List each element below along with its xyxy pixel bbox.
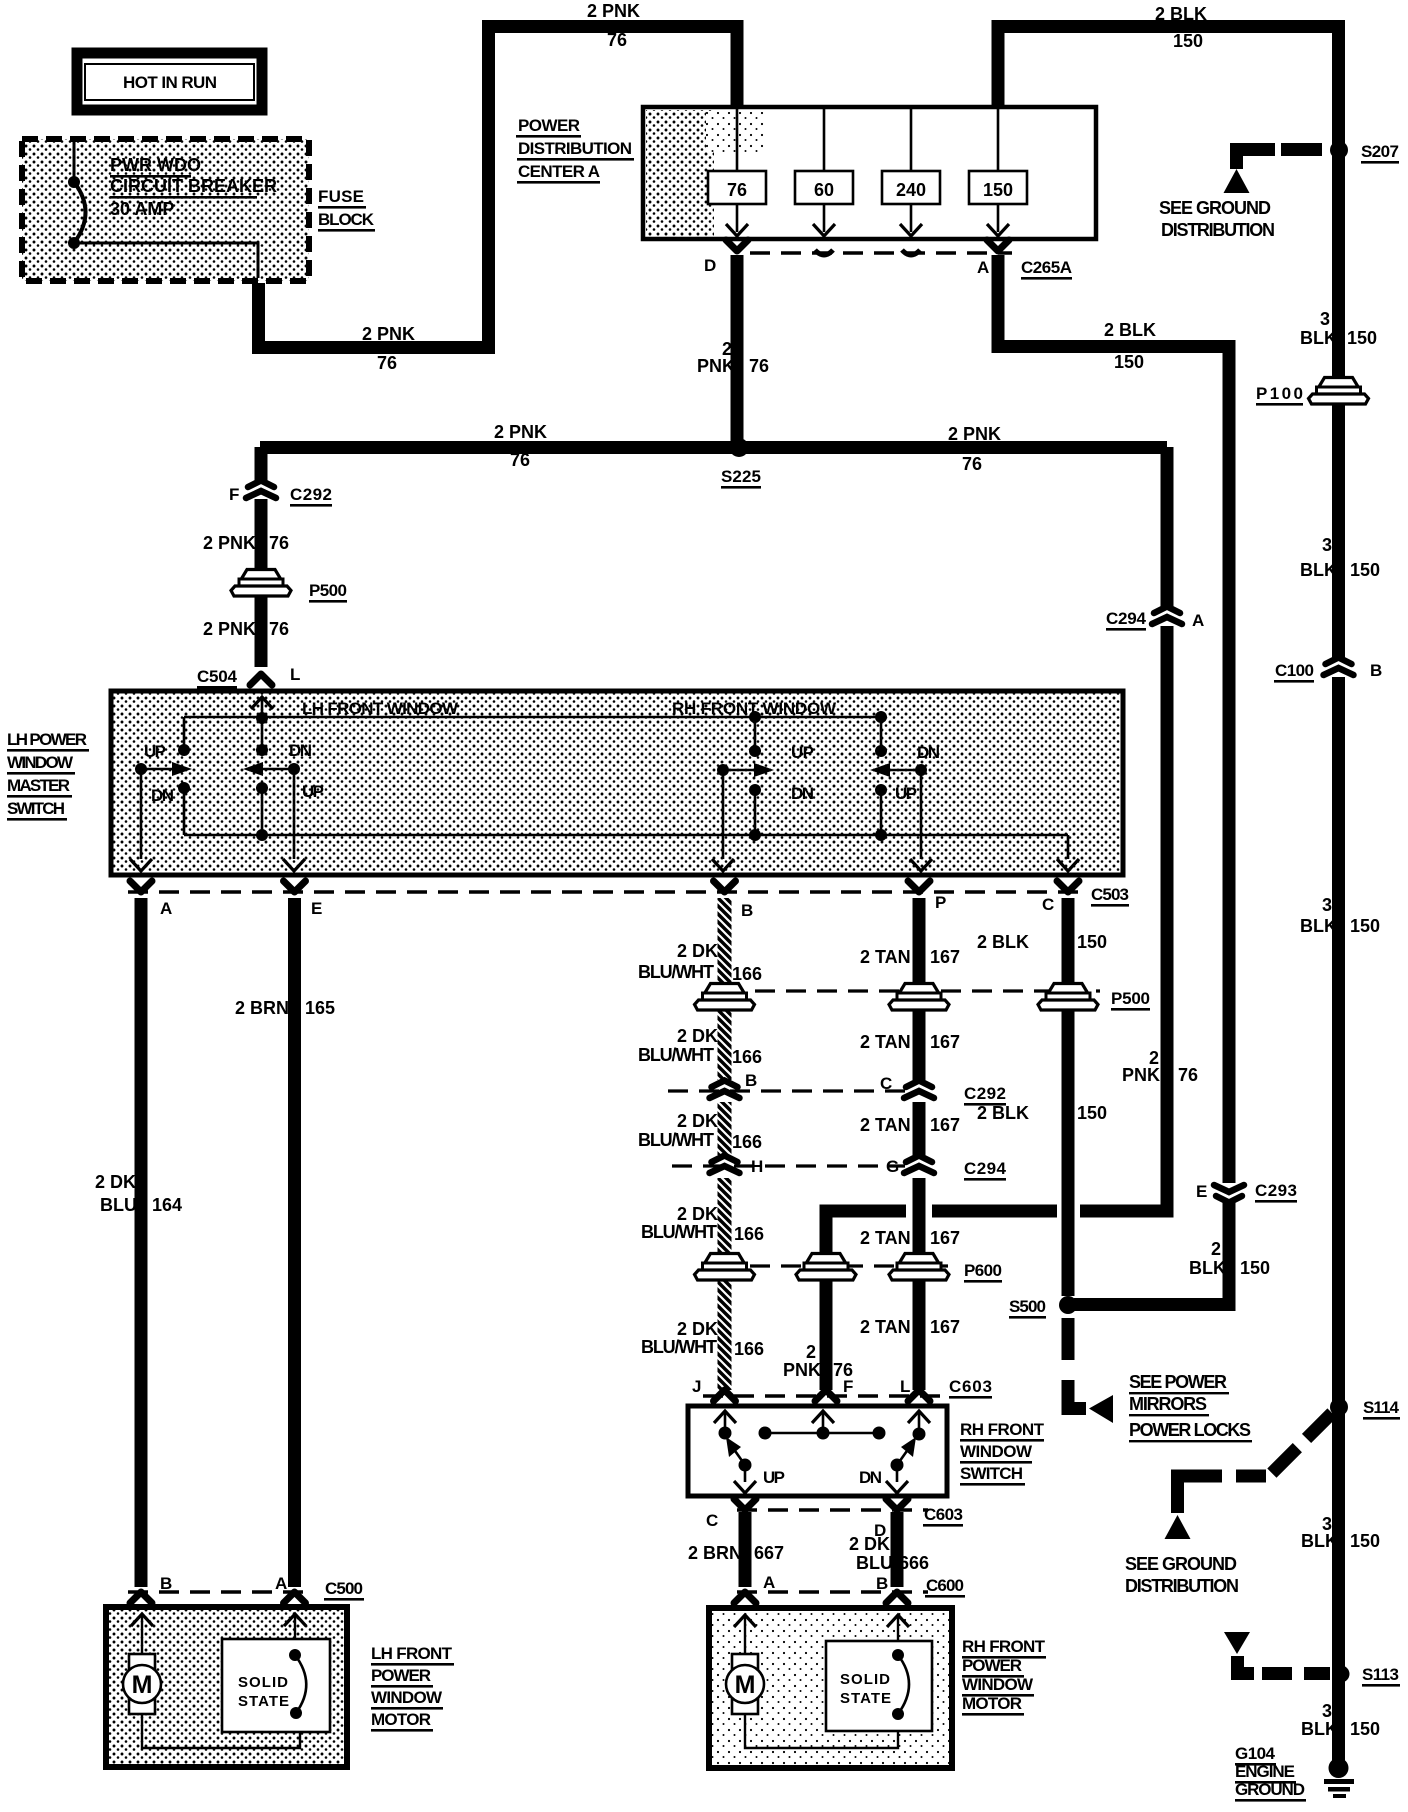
svg-text:667: 667 [754, 1543, 784, 1563]
motor pin B arrow [131, 1614, 153, 1626]
connector C603 pin J [714, 1390, 736, 1401]
connector C294 pin A [1152, 607, 1182, 625]
svg-text:150: 150 [1077, 1103, 1107, 1123]
svg-text:150: 150 [1114, 352, 1144, 372]
wire 2 BRN 667 [739, 1512, 752, 1587]
grommet P500 row dashed [724, 989, 1100, 992]
svg-text:C: C [1042, 895, 1054, 914]
grommet P500 on P [889, 984, 949, 1011]
connector C603 pin D [886, 1499, 908, 1510]
wire 2 BLK 150 pin C down [1062, 898, 1075, 1296]
svg-text:WINDOW: WINDOW [960, 1442, 1033, 1461]
svg-text:C265A: C265A [1021, 258, 1072, 277]
svg-text:76: 76 [749, 356, 769, 376]
svg-text:L: L [900, 1377, 910, 1396]
svg-text:HOT IN RUN: HOT IN RUN [123, 73, 217, 92]
svg-text:2 DK: 2 DK [95, 1172, 136, 1192]
wire 2 DK BLU 666 [891, 1512, 904, 1587]
grommet P500 (left) [231, 570, 291, 597]
wire to LH DN contact [261, 718, 264, 750]
svg-text:DISTRIBUTION: DISTRIBUTION [1161, 220, 1275, 240]
solid state contacts and arc [892, 1649, 904, 1661]
wire top bus to LH UP contact [183, 717, 186, 750]
connector C503 dashed line [128, 890, 1088, 894]
svg-text:BLU/WHT: BLU/WHT [641, 1337, 717, 1357]
RH lower contact DN [749, 784, 761, 796]
svg-text:2 DK: 2 DK [677, 1204, 718, 1224]
svg-text:SEE POWER: SEE POWER [1129, 1372, 1227, 1392]
connector C503 pin C [1057, 881, 1079, 892]
svg-text:76: 76 [510, 450, 530, 470]
svg-text:BLU: BLU [100, 1195, 137, 1215]
wire dashed below S500 [1062, 1318, 1075, 1366]
svg-text:BLU: BLU [856, 1553, 893, 1573]
wire 2 BLK 150 C293 to S500 [1074, 1201, 1229, 1305]
LH lower contact DN [178, 782, 190, 794]
connector C265A unused cavity 1 [815, 250, 833, 255]
svg-text:2 DK: 2 DK [677, 1026, 718, 1046]
switch feed arrow from C504 [251, 697, 273, 709]
grommet P100 [1309, 378, 1369, 405]
svg-text:C: C [880, 1074, 892, 1093]
svg-text:C504: C504 [197, 667, 238, 686]
svg-text:STATE: STATE [238, 1693, 289, 1710]
svg-text:150: 150 [1350, 1531, 1380, 1551]
wire 2 PNK 76 right branch down to C294 [1161, 447, 1174, 608]
connector C292 pin C [904, 1081, 934, 1099]
svg-text:M: M [132, 1671, 153, 1699]
svg-text:WINDOW: WINDOW [7, 753, 74, 772]
connector C603 row dashed [703, 1394, 944, 1398]
svg-text:150: 150 [1240, 1258, 1270, 1278]
connector C603 lower dashed [737, 1508, 928, 1512]
svg-text:LH FRONT: LH FRONT [371, 1644, 453, 1663]
connector C294 pin G [904, 1156, 934, 1174]
svg-text:150: 150 [1350, 560, 1380, 580]
svg-text:2 BRN: 2 BRN [688, 1543, 742, 1563]
svg-text:FUSE: FUSE [318, 187, 364, 206]
connector C265A unused cavity 2 [902, 250, 920, 255]
switch pin L entry arrow [908, 1411, 930, 1423]
svg-text:C600: C600 [926, 1576, 964, 1595]
svg-text:30 AMP: 30 AMP [110, 199, 174, 219]
connector C503 pin E [284, 881, 306, 892]
svg-text:A: A [763, 1573, 775, 1592]
svg-text:167: 167 [930, 1228, 960, 1248]
grommet P500 on B [695, 984, 755, 1011]
svg-text:RH FRONT: RH FRONT [960, 1420, 1045, 1439]
svg-text:2 PNK: 2 PNK [362, 324, 415, 344]
svg-text:166: 166 [732, 1047, 762, 1067]
splice S207 [1330, 141, 1348, 159]
off-page arrow into S113 stub [1224, 1632, 1250, 1654]
wire 2 PNK 76 bend mid segment [932, 1205, 1057, 1218]
switch pin J entry arrow [714, 1411, 736, 1423]
svg-text:D: D [704, 256, 716, 275]
svg-text:LH FRONT WINDOW: LH FRONT WINDOW [302, 699, 459, 718]
node bottom bus [256, 829, 268, 841]
svg-text:GROUND: GROUND [1235, 1780, 1305, 1799]
off-page arrow to ground distribution [1224, 169, 1250, 193]
switch pin F entry arrow [812, 1411, 834, 1423]
svg-text:CENTER A: CENTER A [518, 162, 600, 181]
solid state box [222, 1639, 330, 1732]
svg-text:165: 165 [305, 998, 335, 1018]
svg-text:MASTER: MASTER [7, 776, 70, 795]
svg-text:DN: DN [859, 1468, 882, 1487]
RH section top contacts [749, 711, 761, 723]
fuse 60 lead [823, 109, 826, 232]
RH wiper 1 [717, 764, 729, 776]
svg-text:UP: UP [144, 742, 166, 761]
svg-text:BLK: BLK [1189, 1258, 1226, 1278]
svg-text:76: 76 [1178, 1065, 1198, 1085]
svg-text:DN: DN [917, 743, 940, 762]
svg-text:SEE GROUND: SEE GROUND [1125, 1554, 1237, 1574]
wire 2 BLK 150 pin A to right vertical [998, 255, 1229, 1183]
svg-text:76: 76 [377, 353, 397, 373]
svg-text:RH FRONT: RH FRONT [962, 1637, 1046, 1656]
connector C603 pin C [734, 1499, 756, 1510]
svg-text:DN: DN [289, 741, 312, 760]
svg-text:2 BLK: 2 BLK [977, 1103, 1029, 1123]
svg-text:A: A [1192, 611, 1204, 630]
svg-text:240: 240 [896, 180, 926, 200]
svg-text:CIRCUIT BREAKER: CIRCUIT BREAKER [110, 176, 277, 196]
wire 2 PNK 76 pin D to S225 [731, 255, 744, 447]
svg-text:UP: UP [302, 782, 324, 801]
svg-text:150: 150 [1347, 328, 1377, 348]
connector C500 dashed [128, 1590, 312, 1594]
connector C292 row dashed [668, 1089, 905, 1092]
svg-text:WINDOW: WINDOW [371, 1688, 443, 1707]
svg-text:C: C [706, 1511, 718, 1530]
connector C600 dashed [737, 1590, 928, 1594]
svg-text:SWITCH: SWITCH [960, 1464, 1023, 1483]
motor bottom link [142, 1714, 300, 1748]
svg-text:PNK: PNK [783, 1360, 821, 1380]
svg-text:BLK: BLK [1301, 1531, 1338, 1551]
connector C265A pin A [987, 240, 1009, 251]
svg-text:C603: C603 [949, 1377, 992, 1396]
fuse 150 [969, 171, 1027, 204]
svg-text:POWER: POWER [371, 1666, 431, 1685]
svg-text:G104: G104 [1235, 1744, 1276, 1763]
wire 2 PNK 76 main horizontal S225 [260, 441, 1167, 454]
wire 2 TAN 167 pin P down [913, 898, 926, 1390]
svg-text:BLK: BLK [1300, 916, 1337, 936]
svg-text:2 DK: 2 DK [677, 1111, 718, 1131]
svg-text:166: 166 [732, 1132, 762, 1152]
svg-text:H: H [751, 1157, 763, 1176]
svg-text:B: B [1370, 661, 1382, 680]
svg-text:166: 166 [734, 1339, 764, 1359]
bottom bus output to pin C [1067, 835, 1070, 859]
LH power window master switch box [111, 691, 1123, 875]
svg-text:166: 166 [732, 964, 762, 984]
fuse 240 lead [910, 109, 913, 232]
svg-text:2 PNK: 2 PNK [203, 533, 256, 553]
svg-text:C500: C500 [325, 1579, 363, 1598]
svg-text:POWER: POWER [518, 116, 580, 135]
connector C265A dashed line [750, 251, 1012, 255]
svg-text:B: B [160, 1574, 172, 1593]
svg-text:BLU/WHT: BLU/WHT [638, 1045, 714, 1065]
svg-text:S114: S114 [1363, 1398, 1400, 1417]
svg-text:BLU/WHT: BLU/WHT [641, 1222, 717, 1242]
circuit breaker PWR WDO 30 AMP [73, 139, 76, 177]
svg-text:A: A [275, 1574, 287, 1593]
svg-text:2 TAN: 2 TAN [860, 947, 911, 967]
svg-text:PWR WDO: PWR WDO [110, 155, 201, 175]
solid state box [826, 1641, 932, 1731]
LH lower contact UP [256, 782, 268, 794]
svg-text:BLOCK: BLOCK [318, 210, 375, 229]
svg-text:S113: S113 [1362, 1665, 1399, 1684]
grommet P600 on F [796, 1254, 856, 1281]
svg-text:2 TAN: 2 TAN [860, 1115, 911, 1135]
switch J contact [719, 1427, 732, 1440]
svg-text:LH POWER: LH POWER [7, 730, 87, 749]
grommet P600 on B [695, 1254, 755, 1281]
svg-text:2 PNK: 2 PNK [494, 422, 547, 442]
grommet P600 row dashed [750, 1264, 948, 1267]
splice S225 [730, 438, 749, 457]
node top bus junction [256, 712, 268, 724]
svg-text:2: 2 [1211, 1239, 1221, 1259]
svg-text:MOTOR: MOTOR [371, 1710, 431, 1729]
svg-text:DN: DN [151, 786, 174, 805]
svg-text:F: F [843, 1377, 853, 1396]
connector C100 pin B [1324, 658, 1354, 676]
svg-text:76: 76 [727, 180, 747, 200]
svg-text:DISTRIBUTION: DISTRIBUTION [518, 139, 632, 158]
svg-text:E: E [1196, 1182, 1207, 1201]
RH front power window motor box [709, 1608, 952, 1768]
svg-text:BLU/WHT: BLU/WHT [638, 1130, 714, 1150]
connector C503 pin A [130, 881, 152, 892]
svg-text:F: F [229, 485, 239, 504]
wiper 1 output to pin A [140, 769, 143, 859]
svg-text:B: B [745, 1071, 757, 1090]
LH DN contact [256, 744, 268, 756]
svg-text:E: E [311, 899, 322, 918]
switch DN output [896, 1465, 899, 1482]
svg-text:3: 3 [1322, 1701, 1332, 1721]
connector C292 pin B [710, 1081, 740, 1099]
svg-text:SWITCH: SWITCH [7, 799, 65, 818]
svg-text:2 TAN: 2 TAN [860, 1317, 911, 1337]
connector C294 pin H [710, 1156, 740, 1174]
svg-text:DISTRIBUTION: DISTRIBUTION [1125, 1576, 1239, 1596]
svg-text:76: 76 [607, 30, 627, 50]
svg-text:POWER: POWER [962, 1656, 1022, 1675]
svg-text:PNK: PNK [697, 356, 735, 376]
svg-text:3: 3 [1322, 895, 1332, 915]
splice S113 [1333, 1666, 1350, 1683]
motor pin A arrow [284, 1614, 306, 1626]
LH wiper 2 [288, 763, 300, 775]
svg-text:2 DK: 2 DK [849, 1534, 890, 1554]
svg-text:P500: P500 [1111, 989, 1150, 1008]
fuse 76 lead [736, 109, 739, 232]
svg-text:150: 150 [1350, 916, 1380, 936]
svg-text:3: 3 [1320, 309, 1330, 329]
LH wiper 1 [135, 763, 147, 775]
svg-text:167: 167 [930, 1032, 960, 1052]
ground G104 [1329, 1758, 1349, 1778]
svg-text:WINDOW: WINDOW [962, 1675, 1034, 1694]
solid state contacts and arc [289, 1649, 301, 1661]
RH DN contact [875, 745, 887, 757]
splice S114 [1330, 1398, 1348, 1416]
svg-text:BLK: BLK [1301, 1719, 1338, 1739]
svg-text:2 BLK: 2 BLK [1104, 320, 1156, 340]
svg-text:C603: C603 [924, 1505, 963, 1524]
off-page arrow to power mirrors/locks [1089, 1395, 1113, 1423]
RH front window switch box [688, 1406, 947, 1496]
LH front power window motor box [106, 1607, 347, 1767]
svg-text:2 PNK: 2 PNK [587, 1, 640, 21]
svg-text:S500: S500 [1009, 1297, 1046, 1316]
svg-text:150: 150 [1350, 1719, 1380, 1739]
connector C294 row dashed [672, 1164, 905, 1167]
svg-text:60: 60 [814, 180, 834, 200]
RH lower contact UP [875, 784, 887, 796]
connector C500 pin B [130, 1592, 152, 1603]
svg-text:P: P [935, 893, 946, 912]
switch UP output [744, 1465, 747, 1482]
svg-text:C294: C294 [1106, 609, 1147, 628]
svg-text:ENGINE: ENGINE [1235, 1762, 1295, 1781]
svg-text:BLK: BLK [1300, 328, 1337, 348]
svg-text:76: 76 [269, 619, 289, 639]
wiper 2 output to pin E [293, 769, 296, 859]
svg-text:J: J [692, 1377, 701, 1396]
wire 2 PNK 76 C294 down to bend [1080, 626, 1167, 1211]
fuse 150 lead [997, 109, 1000, 232]
svg-text:666: 666 [899, 1553, 929, 1573]
svg-text:2 DK: 2 DK [677, 941, 718, 961]
svg-text:S207: S207 [1361, 142, 1399, 161]
fuse 60 [795, 171, 853, 204]
svg-text:BLU/WHT: BLU/WHT [638, 962, 714, 982]
svg-text:2: 2 [806, 1342, 816, 1362]
node bottom bus RH [749, 829, 761, 841]
svg-text:MOTOR: MOTOR [962, 1694, 1022, 1713]
connector C600 pin A [734, 1592, 756, 1603]
LH UP contact [178, 744, 190, 756]
svg-text:S225: S225 [721, 467, 761, 486]
grommet P600 on L [889, 1254, 949, 1281]
connector C292 pin F [246, 481, 276, 499]
connector C503 pin P [908, 881, 930, 892]
svg-text:C292: C292 [964, 1084, 1006, 1103]
svg-text:UP: UP [895, 784, 917, 803]
off-page arrow ground distribution [1165, 1515, 1191, 1539]
svg-text:UP: UP [763, 1468, 785, 1487]
dashed wire from S114 to ground arrow [1271, 1413, 1332, 1474]
RH wiper 2 output to pin P [920, 770, 923, 859]
connector C600 pin B [886, 1592, 908, 1603]
svg-text:B: B [876, 1574, 888, 1593]
svg-text:MIRRORS: MIRRORS [1129, 1394, 1207, 1414]
svg-text:SOLID: SOLID [238, 1674, 288, 1691]
switch left wiper [739, 1459, 752, 1472]
switch right wiper [891, 1459, 904, 1472]
svg-text:76: 76 [269, 533, 289, 553]
connector C603 pin L [908, 1390, 930, 1401]
svg-text:PNK: PNK [1122, 1065, 1160, 1085]
switch bus top line [184, 716, 881, 719]
RH wiper 2 [915, 764, 927, 776]
svg-text:C100: C100 [1275, 661, 1314, 680]
svg-text:POWER LOCKS: POWER LOCKS [1129, 1420, 1251, 1440]
wire 2 DK BLU 164 pin A to motor [135, 898, 148, 1587]
svg-text:76: 76 [962, 454, 982, 474]
fuse block dashed box [22, 139, 309, 281]
svg-text:150: 150 [1077, 932, 1107, 952]
wire 2 DK BLU/WHT 166 pin B down (hatched) [718, 898, 732, 1080]
svg-text:A: A [160, 899, 172, 918]
svg-text:166: 166 [734, 1224, 764, 1244]
svg-text:C503: C503 [1091, 885, 1129, 904]
motor bottom link [745, 1714, 898, 1748]
switch bus bottom line [184, 834, 1068, 837]
svg-text:A: A [977, 258, 989, 277]
connector C500 pin A [284, 1592, 306, 1603]
grommet P500 on C [1038, 984, 1098, 1011]
svg-text:150: 150 [1173, 31, 1203, 51]
switch contact bus [765, 1432, 879, 1435]
svg-text:L: L [290, 665, 300, 684]
wire 2 BRN 165 pin E to motor [288, 898, 301, 1587]
motor M symbol [129, 1654, 155, 1714]
svg-text:164: 164 [152, 1195, 182, 1215]
connector C603 pin F [815, 1390, 837, 1401]
wire 2 BLK 150 PDC to right side [998, 27, 1339, 660]
fuse 76 [708, 171, 766, 204]
svg-text:2 PNK: 2 PNK [948, 424, 1001, 444]
connector C293 pin E on right BLK wire [1214, 1185, 1244, 1203]
svg-text:150: 150 [983, 180, 1013, 200]
connector box HOT IN RUN [77, 53, 262, 110]
svg-text:P600: P600 [964, 1261, 1002, 1280]
connector C504 pin L [250, 674, 272, 685]
motor M symbol [732, 1654, 758, 1714]
svg-text:2 BRN: 2 BRN [235, 998, 289, 1018]
wire 2 PNK 76 left branch down [255, 447, 268, 482]
svg-text:UP: UP [791, 743, 814, 762]
svg-text:BLK: BLK [1300, 560, 1337, 580]
svg-text:167: 167 [930, 1115, 960, 1135]
svg-text:STATE: STATE [840, 1690, 891, 1707]
motor pin B arrow [887, 1615, 909, 1627]
svg-text:2 PNK: 2 PNK [203, 619, 256, 639]
svg-text:SOLID: SOLID [840, 1671, 890, 1688]
svg-text:C293: C293 [1255, 1181, 1297, 1200]
RH UP contact [749, 745, 761, 757]
svg-text:2 TAN: 2 TAN [860, 1032, 911, 1052]
RH wiper 1 output to pin B [722, 770, 725, 859]
splice S500 [1059, 1296, 1077, 1314]
svg-text:167: 167 [930, 1317, 960, 1337]
svg-text:2 TAN: 2 TAN [860, 1228, 911, 1248]
splice S207 stub dashed [1281, 143, 1322, 156]
connector C265A pin D [726, 240, 748, 251]
svg-text:C294: C294 [964, 1159, 1007, 1178]
switch L contact [913, 1428, 926, 1441]
